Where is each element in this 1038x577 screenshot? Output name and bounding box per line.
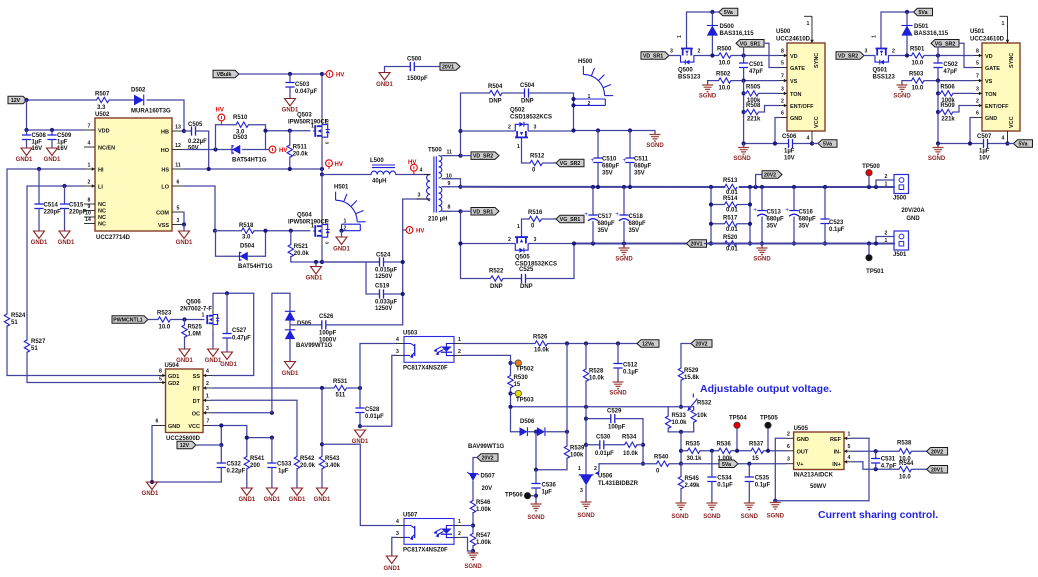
- resistor R507: [97, 97, 109, 102]
- svg-text:220pF: 220pF: [44, 210, 62, 216]
- svg-text:0.1µF: 0.1µF: [717, 483, 733, 489]
- svg-text:TP502: TP502: [516, 367, 534, 373]
- wire 5Va node 2: [881, 11, 914, 13]
- power port HV at primary low side: [403, 229, 406, 231]
- svg-text:TP503: TP503: [516, 398, 534, 404]
- resistor R539: [566, 432, 568, 446]
- IC U505 INA213AIDCK body: [794, 432, 844, 470]
- svg-text:ENT/OFF: ENT/OFF: [985, 104, 1009, 110]
- power tag 5Va at U501 VCC: [1014, 140, 1033, 148]
- ground GND1 under R542: [292, 488, 303, 496]
- svg-text:REF: REF: [830, 437, 842, 443]
- wire SGND rail bottom: [574, 243, 711, 245]
- svg-text:C534: C534: [717, 476, 732, 482]
- svg-text:3: 3: [976, 86, 979, 92]
- svg-text:0.47µF: 0.47µF: [232, 336, 251, 342]
- capacitor C531: [875, 451, 877, 458]
- wire 5Va node: [687, 11, 719, 13]
- svg-text:50WV: 50WV: [810, 484, 826, 490]
- capacitor C518: [623, 187, 625, 215]
- wire DT line to R542: [212, 400, 297, 456]
- svg-text:R537: R537: [749, 442, 764, 448]
- svg-text:C529: C529: [607, 409, 622, 415]
- svg-text:3.0: 3.0: [236, 130, 245, 136]
- svg-text:DNP: DNP: [520, 284, 533, 290]
- svg-text:2N7002-7-F: 2N7002-7-F: [180, 307, 212, 313]
- svg-text:15.8k: 15.8k: [684, 375, 700, 381]
- svg-text:20.0k: 20.0k: [300, 463, 316, 469]
- svg-text:VG_SR1: VG_SR1: [560, 217, 581, 223]
- svg-text:GND1: GND1: [282, 371, 299, 377]
- svg-text:10.0: 10.0: [719, 61, 731, 67]
- svg-text:3: 3: [396, 531, 399, 537]
- svg-text:10V: 10V: [784, 156, 795, 162]
- svg-text:0.1µF: 0.1µF: [755, 483, 771, 489]
- svg-text:GND1: GND1: [220, 362, 237, 368]
- svg-text:VD: VD: [790, 54, 798, 60]
- svg-text:TON: TON: [985, 92, 997, 98]
- svg-text:0.047µF: 0.047µF: [295, 89, 317, 95]
- svg-text:HV: HV: [335, 162, 343, 168]
- capacitor C516: [793, 187, 795, 211]
- wire U503 pin4 from R531 node: [360, 344, 396, 389]
- svg-text:DNP: DNP: [489, 99, 502, 105]
- wire SGND rail top: [574, 130, 656, 132]
- svg-text:GND1: GND1: [333, 247, 350, 253]
- svg-text:HO: HO: [161, 148, 170, 154]
- svg-text:R508: R508: [746, 103, 761, 109]
- svg-text:0.01: 0.01: [726, 247, 738, 253]
- svg-text:16V: 16V: [32, 146, 43, 152]
- ground GND1 under C503: [285, 99, 296, 107]
- svg-text:VDD: VDD: [98, 129, 110, 135]
- svg-text:VCC: VCC: [188, 424, 200, 430]
- svg-text:NC: NC: [98, 222, 106, 228]
- net tag 20V2 at R538: [927, 447, 948, 455]
- svg-text:C504: C504: [520, 83, 535, 89]
- svg-text:D500: D500: [720, 24, 735, 30]
- svg-text:SGND: SGND: [527, 515, 545, 521]
- svg-text:V+: V+: [797, 462, 804, 468]
- capacitor C532: [220, 445, 222, 463]
- capacitor C504 DNP: [525, 88, 529, 97]
- svg-text:R510: R510: [233, 115, 248, 121]
- svg-text:SGND: SGND: [671, 514, 689, 520]
- svg-text:100pF: 100pF: [319, 331, 337, 337]
- svg-text:5Va: 5Va: [919, 10, 928, 16]
- ground SGND under U500: [743, 144, 745, 148]
- wire shunt bank rails: [710, 187, 712, 244]
- wire Q500 drain to R500: [694, 55, 719, 57]
- svg-text:13: 13: [175, 125, 181, 131]
- wire REF loop: [775, 438, 869, 500]
- svg-text:R500: R500: [717, 47, 732, 53]
- capacitor C507: [984, 139, 988, 148]
- resistor R508: [744, 111, 746, 113]
- wire R505/R508 common: [743, 81, 745, 144]
- svg-text:40µH: 40µH: [372, 179, 386, 185]
- transformer T500: [427, 175, 430, 201]
- zener diode D507: [472, 458, 474, 474]
- svg-text:GND1: GND1: [44, 157, 61, 163]
- svg-text:20V2: 20V2: [481, 456, 493, 462]
- svg-text:U501: U501: [970, 29, 985, 35]
- wire gate node Q503: [265, 125, 267, 150]
- resistor R504 DNP: [461, 92, 490, 94]
- svg-text:3: 3: [396, 349, 399, 355]
- svg-text:SGND: SGND: [464, 564, 482, 570]
- power tag 12Va: [637, 340, 659, 348]
- svg-text:GND: GND: [797, 437, 809, 443]
- svg-text:47pF: 47pF: [943, 69, 957, 75]
- svg-text:IPW50R190CE: IPW50R190CE: [288, 120, 329, 126]
- svg-text:R512: R512: [530, 154, 545, 160]
- ground GND1 under C527: [222, 352, 233, 360]
- svg-text:R513: R513: [723, 178, 738, 184]
- svg-text:U502: U502: [95, 112, 110, 118]
- svg-text:SGND: SGND: [741, 514, 759, 520]
- svg-text:1: 1: [677, 35, 683, 38]
- svg-text:SGND: SGND: [767, 514, 785, 520]
- power tag 12V at U504: [177, 441, 196, 449]
- svg-text:C536: C536: [542, 483, 557, 489]
- wire Q503 source to switch node: [321, 145, 323, 175]
- svg-text:R506: R506: [940, 85, 955, 91]
- resistor R517: [711, 223, 725, 225]
- capacitor C514: [38, 169, 40, 204]
- transistor Q504 IPW50R190CE: [321, 175, 323, 218]
- svg-text:BAT54HT1G: BAT54HT1G: [238, 264, 273, 270]
- ground SGND under C534: [706, 501, 717, 510]
- svg-text:R539: R539: [570, 446, 585, 452]
- net tag VD_SR2 at transformer: [471, 152, 499, 160]
- svg-text:5Va: 5Va: [1019, 142, 1028, 148]
- wire SGND rail U501: [938, 143, 984, 145]
- svg-text:2.49k: 2.49k: [685, 483, 701, 489]
- resistor R513: [725, 184, 737, 189]
- svg-text:HI: HI: [98, 168, 104, 174]
- power port HV at HS: [326, 160, 333, 167]
- wire 12V to R507/D502: [27, 99, 97, 101]
- svg-text:C503: C503: [295, 82, 310, 88]
- svg-text:R526: R526: [533, 335, 548, 341]
- capacitor C523: [824, 187, 826, 219]
- svg-text:8: 8: [781, 49, 784, 55]
- svg-text:4: 4: [206, 369, 209, 375]
- svg-text:C516: C516: [799, 210, 814, 216]
- svg-text:R518: R518: [239, 223, 254, 229]
- wire D506 mid to C536: [535, 432, 537, 470]
- svg-text:GND1: GND1: [264, 497, 281, 503]
- svg-text:GND1: GND1: [376, 82, 393, 88]
- svg-text:C512: C512: [623, 363, 638, 369]
- svg-text:3: 3: [534, 125, 537, 131]
- capacitor C510: [597, 131, 599, 159]
- diode D505 BAV99WT1G upper: [285, 311, 295, 320]
- power port HV at transformer pin 4: [411, 164, 418, 171]
- svg-text:1: 1: [1002, 21, 1005, 27]
- svg-text:COM: COM: [156, 211, 169, 217]
- svg-text:DNP: DNP: [521, 99, 534, 105]
- resistor R537: [751, 448, 763, 453]
- svg-text:1µF: 1µF: [784, 149, 795, 155]
- svg-text:11: 11: [175, 163, 181, 169]
- svg-text:GND1: GND1: [142, 491, 159, 497]
- svg-text:R503: R503: [909, 72, 924, 78]
- resistor R520: [711, 243, 725, 245]
- wire gate node Q504: [266, 230, 311, 232]
- svg-text:5Va: 5Va: [823, 142, 832, 148]
- svg-text:2: 2: [787, 431, 790, 437]
- ground SGND under C535: [744, 501, 755, 510]
- svg-text:NC: NC: [98, 215, 106, 221]
- svg-text:TP504: TP504: [729, 416, 747, 422]
- svg-text:C533: C533: [277, 462, 292, 468]
- svg-text:680µF: 680µF: [799, 217, 816, 223]
- svg-text:R517: R517: [723, 215, 738, 221]
- svg-text:7: 7: [781, 74, 784, 80]
- svg-text:UCC24610D: UCC24610D: [970, 37, 1005, 43]
- svg-text:1µF: 1µF: [542, 490, 553, 496]
- svg-text:D505: D505: [297, 321, 312, 327]
- resistor R542: [294, 457, 299, 469]
- svg-text:SGND: SGND: [733, 156, 751, 162]
- svg-text:5: 5: [976, 61, 979, 67]
- svg-text:12: 12: [175, 143, 181, 149]
- ground GND1 under C528: [355, 430, 366, 438]
- svg-text:6: 6: [156, 419, 159, 425]
- svg-text:SGND: SGND: [609, 391, 627, 397]
- svg-text:BAS316,115: BAS316,115: [914, 31, 949, 37]
- wire OC line: [212, 412, 272, 414]
- svg-text:0.22µF: 0.22µF: [227, 469, 246, 475]
- wire Q506 source to GND1: [212, 330, 214, 349]
- svg-text:DT: DT: [193, 399, 201, 405]
- svg-text:ENT/OFF: ENT/OFF: [790, 104, 814, 110]
- resistor R531: [334, 385, 347, 390]
- svg-text:20V2: 20V2: [764, 173, 776, 179]
- svg-text:51: 51: [11, 320, 18, 326]
- svg-text:U507: U507: [403, 513, 418, 519]
- net tag VD_SR1 at transformer: [471, 208, 499, 216]
- svg-text:1: 1: [517, 144, 520, 150]
- resistor R527: [24, 340, 29, 352]
- svg-text:R545: R545: [685, 476, 700, 482]
- wire T500 pin 11 to VD_SR2: [442, 155, 461, 157]
- svg-text:20V1: 20V1: [442, 65, 454, 71]
- ground GND1 at U507 pin3: [386, 556, 397, 564]
- wire U507 pin3 to GND1: [392, 537, 396, 556]
- svg-text:R547: R547: [476, 533, 491, 539]
- svg-text:9: 9: [88, 204, 91, 210]
- svg-text:10.0: 10.0: [159, 325, 171, 331]
- resistor R500: [719, 53, 731, 58]
- resistor R535: [681, 450, 688, 452]
- resistor R512 gate Q502: [522, 140, 531, 163]
- svg-text:NC/EN: NC/EN: [98, 146, 115, 152]
- svg-text:4: 4: [420, 168, 423, 174]
- svg-text:1: 1: [202, 313, 205, 319]
- svg-text:1250V: 1250V: [375, 306, 392, 312]
- wire R506/R509 common: [937, 81, 939, 144]
- svg-text:1.00k: 1.00k: [476, 507, 492, 513]
- svg-text:H500: H500: [578, 59, 593, 65]
- svg-text:1: 1: [88, 163, 91, 169]
- svg-text:100pF: 100pF: [608, 425, 626, 431]
- svg-text:GND: GND: [985, 116, 997, 122]
- svg-text:Q502: Q502: [510, 108, 525, 114]
- svg-text:TON: TON: [790, 92, 802, 98]
- svg-text:20V1: 20V1: [690, 242, 702, 248]
- resistor R518: [215, 230, 242, 232]
- svg-text:Q504: Q504: [297, 213, 312, 219]
- svg-text:R501: R501: [910, 47, 925, 53]
- svg-text:5: 5: [177, 206, 180, 212]
- wire U503 pin1 to R526: [462, 343, 535, 345]
- svg-text:10.0k: 10.0k: [589, 376, 605, 382]
- svg-text:16V: 16V: [57, 146, 68, 152]
- svg-text:TL431BIDBZR: TL431BIDBZR: [598, 481, 639, 487]
- svg-text:7: 7: [88, 124, 91, 130]
- resistor R511: [289, 131, 291, 145]
- svg-text:BAV99WT1G: BAV99WT1G: [296, 343, 333, 349]
- svg-text:CSD18532KCS: CSD18532KCS: [510, 115, 552, 121]
- svg-text:4: 4: [807, 136, 810, 142]
- svg-text:5: 5: [159, 377, 162, 383]
- svg-text:4: 4: [848, 455, 851, 461]
- wire divider to R535 row: [680, 432, 682, 464]
- svg-text:0.1µF: 0.1µF: [829, 227, 845, 233]
- svg-text:LO: LO: [161, 185, 169, 191]
- power tag 5Va at D501: [914, 8, 933, 16]
- svg-text:0.01: 0.01: [726, 227, 738, 233]
- svg-text:0.22µF: 0.22µF: [188, 139, 207, 145]
- svg-text:+: +: [785, 207, 789, 214]
- wire U501 GND to SGND rail: [970, 118, 974, 144]
- capacitor C534: [711, 451, 713, 477]
- wire output rail 20V2: [461, 186, 725, 188]
- svg-text:HS: HS: [161, 168, 169, 174]
- svg-text:MURA160T3G: MURA160T3G: [131, 109, 171, 115]
- connector J500: [876, 180, 894, 187]
- svg-text:6: 6: [976, 111, 979, 117]
- svg-text:4: 4: [396, 337, 399, 343]
- svg-text:R524: R524: [11, 313, 26, 319]
- svg-text:8: 8: [88, 198, 91, 204]
- svg-text:R521: R521: [294, 244, 309, 250]
- svg-text:SGND: SGND: [577, 513, 595, 519]
- svg-text:35V: 35V: [767, 224, 778, 230]
- svg-text:D506: D506: [520, 419, 535, 425]
- svg-text:SYNC: SYNC: [1009, 53, 1015, 68]
- svg-text:0.01µF: 0.01µF: [365, 414, 384, 420]
- capacitor C503: [289, 74, 291, 83]
- heatsink H500: [583, 74, 604, 95]
- svg-text:2: 2: [508, 125, 511, 131]
- svg-text:10.0k: 10.0k: [534, 348, 550, 354]
- wire U507 pin4 loop: [322, 444, 396, 525]
- svg-text:Adjustable output voltage.: Adjustable output voltage.: [700, 383, 832, 395]
- svg-text:1µF: 1µF: [278, 469, 289, 475]
- IC U504 UCC25600D body: [166, 369, 204, 433]
- svg-text:1: 1: [458, 337, 461, 343]
- svg-text:SGND: SGND: [753, 257, 771, 263]
- svg-text:D504: D504: [240, 244, 255, 250]
- wire RT line: [212, 387, 334, 389]
- resistor R524: [4, 314, 9, 326]
- svg-text:9: 9: [448, 181, 451, 187]
- svg-text:R504: R504: [488, 84, 503, 90]
- svg-text:Q505: Q505: [515, 255, 530, 261]
- svg-text:C510: C510: [602, 157, 617, 163]
- svg-text:PC817X4NSZ0F: PC817X4NSZ0F: [403, 548, 448, 554]
- capacitor C513: [761, 187, 763, 211]
- svg-text:35V: 35V: [634, 171, 645, 177]
- test point TP500: [866, 170, 872, 176]
- heatsink H501: [336, 200, 358, 222]
- svg-text:+: +: [623, 157, 627, 164]
- optocoupler U507 PC817X4NSZ0F: [404, 519, 454, 545]
- svg-text:47pF: 47pF: [749, 69, 763, 75]
- U502 pin stubs: [84, 129, 95, 131]
- svg-text:20V: 20V: [482, 486, 493, 492]
- optocoupler U503 PC817X4NSZ0F: [404, 337, 454, 363]
- power tag VBulk: [213, 70, 239, 78]
- wire VD_SR2 node vertical: [460, 93, 462, 156]
- svg-text:1.00k: 1.00k: [476, 540, 492, 546]
- ground GND1 under R543: [317, 488, 328, 496]
- svg-text:2: 2: [458, 531, 461, 537]
- svg-text:Q500: Q500: [678, 68, 693, 74]
- test point TP504: [734, 422, 740, 428]
- test point TP502: [511, 362, 515, 364]
- svg-text:2: 2: [698, 49, 701, 55]
- svg-text:R514: R514: [723, 196, 738, 202]
- wire U505 GND to SGND: [775, 438, 786, 500]
- svg-text:BSS123: BSS123: [873, 75, 896, 81]
- svg-text:0.01µF: 0.01µF: [595, 451, 614, 457]
- svg-text:35V: 35V: [629, 228, 640, 234]
- svg-text:R511: R511: [293, 145, 308, 151]
- svg-text:10k: 10k: [697, 413, 708, 419]
- svg-text:3: 3: [325, 242, 330, 245]
- U502 pin input arrows: [92, 167, 95, 171]
- wire HI line: [7, 169, 84, 314]
- svg-text:R502: R502: [716, 72, 731, 78]
- svg-text:C528: C528: [365, 407, 380, 413]
- op-amp U502 UCC27714D body: [95, 118, 172, 231]
- capacitor C506: [789, 139, 793, 148]
- net tag VG_SR1 to GATE: [736, 39, 764, 47]
- capacitor C525 DNP: [522, 274, 526, 283]
- resistor R546: [470, 501, 475, 513]
- svg-text:8: 8: [159, 369, 162, 375]
- capacitor C526: [290, 324, 322, 326]
- svg-text:35V: 35V: [799, 224, 810, 230]
- capacitor C509: [51, 130, 53, 135]
- svg-text:20V2: 20V2: [931, 449, 943, 455]
- net tag 20V1 at shunt bank: [687, 240, 707, 248]
- svg-text:VSS: VSS: [158, 223, 169, 229]
- svg-text:35V: 35V: [602, 171, 613, 177]
- svg-text:L500: L500: [370, 158, 384, 164]
- resistor R528: [585, 344, 587, 370]
- wire VBulk rail: [239, 74, 322, 117]
- ground SGND at U505: [770, 500, 781, 509]
- svg-text:C523: C523: [829, 220, 844, 226]
- svg-text:2: 2: [344, 226, 347, 232]
- svg-text:R516: R516: [528, 210, 543, 216]
